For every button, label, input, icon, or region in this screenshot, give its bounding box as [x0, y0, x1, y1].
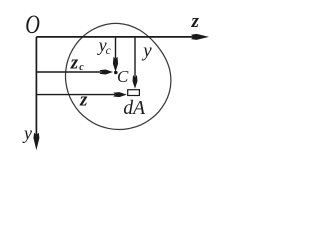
- zc arrowhead: [100, 70, 114, 75]
- svg-text:z: z: [79, 89, 88, 110]
- svg-text:y: y: [141, 41, 152, 62]
- svg-text:C: C: [117, 67, 129, 86]
- svg-text:dA: dA: [123, 98, 145, 119]
- wire yc centroidal axis line: [115, 38, 117, 59]
- label origin O: [25, 10, 40, 39]
- yc arrowhead: [113, 57, 118, 72]
- area element dA rectangle: [128, 90, 140, 96]
- svg-text:c: c: [79, 62, 84, 73]
- wire y coordinate line to dA: [134, 38, 136, 77]
- y coordinate arrowhead: [133, 75, 138, 89]
- svg-text:O: O: [25, 10, 40, 39]
- svg-text:y: y: [22, 123, 32, 143]
- wire y axis line: [35, 37, 37, 136]
- y axis arrowhead: [33, 133, 39, 151]
- z coordinate arrowhead: [113, 92, 127, 97]
- svg-text:c: c: [106, 45, 111, 57]
- wire zc centroidal axis line: [36, 71, 101, 73]
- wire z coordinate line to dA: [36, 94, 115, 96]
- node C centroid dot: [114, 71, 118, 75]
- wire z axis line: [36, 36, 194, 38]
- svg-text:z: z: [191, 11, 200, 32]
- z axis arrowhead: [191, 34, 209, 40]
- svg-text:z: z: [70, 52, 79, 73]
- cross-section boundary curve: [66, 23, 171, 129]
